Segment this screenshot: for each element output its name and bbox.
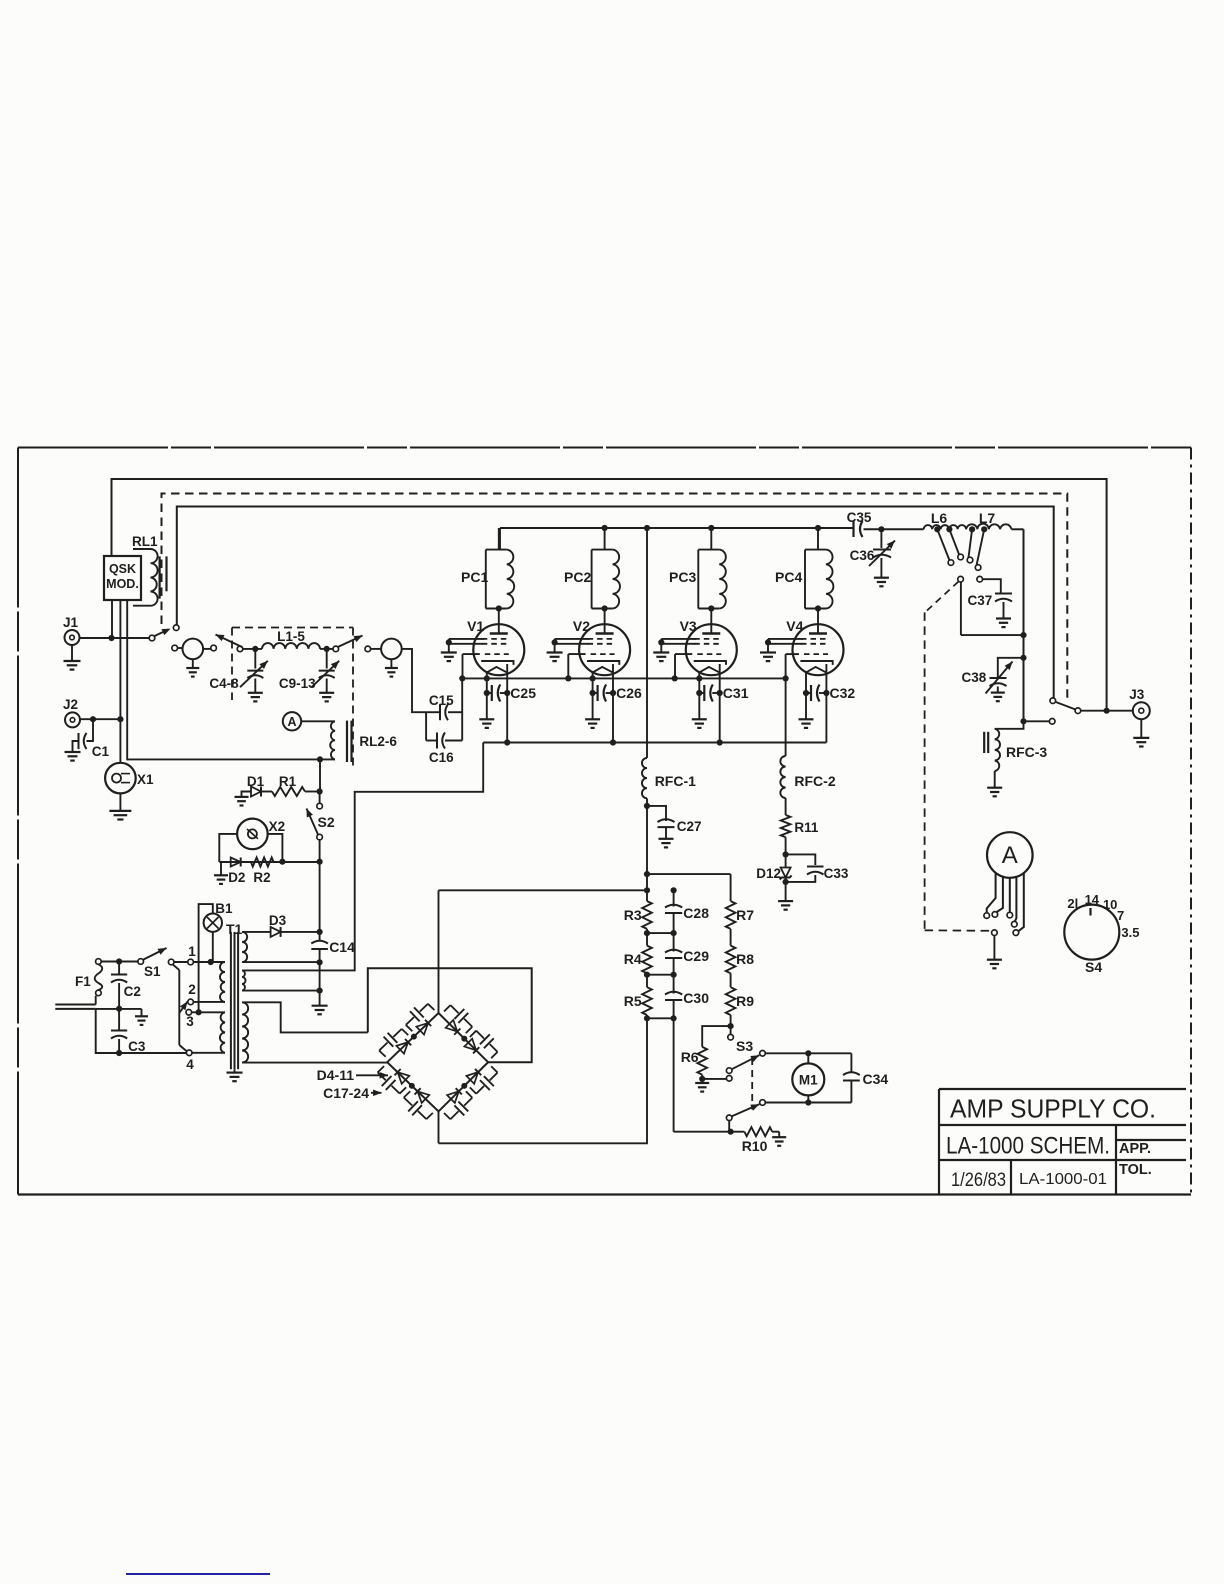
svg-text:M1: M1: [799, 1073, 818, 1088]
svg-text:V3: V3: [680, 618, 697, 634]
svg-text:L1-5: L1-5: [277, 629, 305, 644]
svg-text:S4: S4: [1085, 959, 1102, 975]
svg-text:RL2-6: RL2-6: [359, 734, 397, 749]
svg-text:D12: D12: [756, 866, 781, 881]
svg-text:C30: C30: [683, 990, 709, 1006]
svg-text:C35: C35: [847, 510, 872, 525]
svg-text:PC4: PC4: [775, 569, 802, 585]
svg-text:MOD.: MOD.: [106, 577, 139, 591]
svg-text:C4-8: C4-8: [209, 676, 239, 691]
svg-text:C27: C27: [677, 819, 702, 834]
svg-text:R6: R6: [681, 1049, 699, 1065]
svg-text:APP.: APP.: [1119, 1141, 1151, 1157]
svg-text:C34: C34: [863, 1071, 889, 1087]
svg-text:1/26/83: 1/26/83: [951, 1170, 1006, 1191]
svg-text:C26: C26: [616, 685, 642, 701]
svg-text:10: 10: [1103, 897, 1117, 912]
svg-text:C37: C37: [968, 593, 993, 608]
svg-text:PC2: PC2: [564, 569, 591, 585]
svg-text:C3: C3: [128, 1039, 146, 1054]
svg-text:D4-11: D4-11: [317, 1067, 355, 1083]
svg-text:J3: J3: [1129, 687, 1145, 702]
svg-text:C32: C32: [830, 685, 856, 701]
svg-text:LA-1000 SCHEM.: LA-1000 SCHEM.: [946, 1133, 1110, 1160]
svg-text:C9-13: C9-13: [279, 676, 316, 691]
svg-text:S1: S1: [144, 964, 161, 979]
svg-text:C28: C28: [683, 905, 709, 921]
svg-text:LA-1000-01: LA-1000-01: [1019, 1171, 1107, 1188]
svg-text:PC1: PC1: [461, 569, 488, 585]
svg-text:L6: L6: [931, 510, 948, 526]
svg-text:R7: R7: [736, 907, 754, 923]
svg-text:1: 1: [188, 944, 196, 959]
svg-text:C38: C38: [962, 670, 987, 685]
svg-text:14: 14: [1085, 892, 1100, 907]
svg-text:TOL.: TOL.: [1119, 1162, 1152, 1178]
svg-text:J2: J2: [63, 697, 78, 712]
svg-text:A: A: [287, 715, 296, 729]
svg-text:RL1: RL1: [132, 534, 158, 549]
svg-text:D3: D3: [269, 913, 287, 928]
svg-text:C25: C25: [510, 685, 536, 701]
svg-text:C29: C29: [683, 948, 709, 964]
svg-text:RFC-2: RFC-2: [794, 773, 835, 789]
svg-text:4: 4: [186, 1057, 194, 1072]
svg-text:V1: V1: [467, 618, 484, 634]
svg-text:R8: R8: [736, 951, 754, 967]
svg-text:D1: D1: [247, 774, 265, 789]
svg-text:R9: R9: [736, 993, 754, 1009]
svg-text:B1: B1: [215, 901, 233, 916]
svg-text:X1: X1: [137, 772, 154, 787]
svg-text:R3: R3: [624, 907, 642, 923]
svg-text:V4: V4: [786, 618, 803, 634]
svg-text:3: 3: [186, 1014, 194, 1029]
svg-text:D2: D2: [228, 870, 245, 885]
svg-text:R5: R5: [624, 993, 642, 1009]
svg-text:RFC-1: RFC-1: [655, 773, 696, 789]
svg-text:C17-24: C17-24: [323, 1085, 369, 1101]
svg-text:S3: S3: [736, 1038, 753, 1054]
svg-text:C33: C33: [824, 866, 849, 881]
svg-text:R1: R1: [279, 774, 297, 789]
svg-text:AMP SUPPLY CO.: AMP SUPPLY CO.: [950, 1094, 1156, 1124]
svg-text:V2: V2: [573, 618, 590, 634]
svg-text:PC3: PC3: [669, 569, 696, 585]
svg-text:R2: R2: [253, 870, 270, 885]
svg-text:C1: C1: [92, 744, 110, 759]
svg-text:R4: R4: [624, 951, 642, 967]
svg-text:S2: S2: [318, 814, 335, 830]
svg-text:2l: 2l: [1067, 896, 1078, 911]
svg-text:X2: X2: [269, 819, 286, 834]
svg-text:7: 7: [1117, 908, 1124, 923]
svg-text:QSK: QSK: [109, 562, 136, 576]
svg-text:R10: R10: [742, 1138, 768, 1154]
svg-text:A: A: [1002, 842, 1018, 869]
svg-text:F1: F1: [75, 974, 91, 989]
svg-text:J1: J1: [63, 615, 79, 630]
svg-text:RFC-3: RFC-3: [1006, 744, 1047, 760]
svg-text:C16: C16: [429, 750, 454, 765]
svg-text:C36: C36: [850, 548, 875, 563]
svg-text:R11: R11: [794, 820, 819, 835]
svg-text:C31: C31: [723, 685, 749, 701]
svg-text:2: 2: [188, 982, 196, 997]
svg-text:3.5: 3.5: [1121, 925, 1139, 940]
svg-text:C15: C15: [429, 693, 454, 708]
svg-text:C2: C2: [124, 984, 141, 999]
svg-text:C14: C14: [329, 939, 355, 955]
